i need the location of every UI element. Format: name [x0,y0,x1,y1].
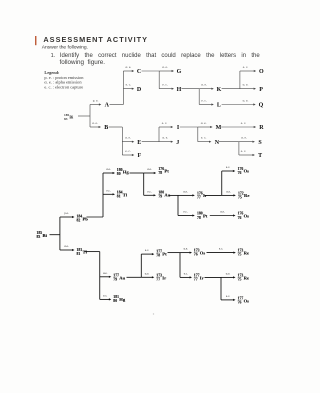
arrow to Au-177 (alpha emission) [100,276,110,278]
svg-text:e. c.: e. c. [162,83,168,87]
svg-text:e. c.: e. c. [125,149,131,153]
svg-text:75: 75 [238,253,242,257]
arrow from Pt-180 to Os-176 (alpha emission) [210,215,234,217]
arrow to node E (alpha emission) [122,141,132,143]
svg-text:T: T [258,153,262,159]
wire branch vertical B to E/F [121,127,123,155]
svg-text:N: N [215,140,220,146]
svg-text:M: M [216,125,222,131]
svg-text:e.c.: e.c. [103,294,107,298]
svg-text:e.c.: e.c. [147,189,151,193]
svg-text:Re: Re [244,275,249,280]
wire from Au-177 to branch [127,276,142,278]
svg-text:75: 75 [238,195,242,199]
svg-text:Os: Os [244,214,250,219]
svg-text:173: 173 [156,274,162,278]
arrow to Os-173 (alpha emission) [180,252,190,254]
svg-text:172: 172 [238,191,244,195]
svg-text:Au: Au [119,275,125,280]
wire from E to branch [142,141,159,143]
wire branch vertical I to M/N [197,127,199,142]
svg-text:Hg: Hg [119,297,126,302]
wire branch vertical Pb-184 [102,173,104,217]
arrow to node L (electron capture) [199,104,212,106]
wire branch vertical Pt-177 [179,253,181,278]
arrow to Ir-173 (alpha emission) [141,276,152,278]
svg-text:181: 181 [77,248,83,252]
svg-text:Q: Q [259,103,264,109]
wire branch vertical Bi to Pb-184/Tl-181 [59,217,61,250]
svg-text:α. e.: α. e. [92,121,98,125]
wire branch vertical Au-180 [177,195,179,215]
svg-text:76: 76 [238,171,242,175]
svg-text:e.c.: e.c. [184,272,188,276]
svg-text:α.e.: α.e. [64,244,69,248]
svg-text:77: 77 [197,195,201,199]
wire branch vertical Ir-177 [220,277,222,300]
svg-text:e.c.: e.c. [183,210,187,214]
arrow to Re-173 (alpha emission) [221,276,234,278]
arrow to Os-176 (electron capture) [222,170,234,172]
svg-text:α.e.: α.e. [183,189,188,193]
wire branch vertical C to G/H [158,71,160,89]
wire from N to branch [219,141,239,143]
stray scan speck [153,313,154,314]
svg-text:83: 83 [37,235,41,239]
svg-text:184: 184 [77,215,83,219]
svg-text:e.c.: e.c. [226,165,230,169]
arrow to node K (alpha emission) [199,88,212,90]
wire branch vertical A to C/D [122,71,124,105]
svg-text:α.e.: α.e. [147,167,152,171]
svg-text:α. e.: α. e. [162,65,168,69]
svg-text:1.: 1. [51,53,56,59]
svg-text:O: O [259,69,264,75]
svg-text:76: 76 [238,301,242,305]
svg-text:Os: Os [244,169,250,174]
arrow to node G (alpha emission) [159,70,172,72]
svg-text:173: 173 [194,249,200,253]
arrow to node J (alpha emission) [159,141,171,143]
arrow to node A (proton emission) [90,104,99,106]
svg-text:81: 81 [77,252,81,256]
svg-text:177: 177 [156,250,162,254]
svg-text:78: 78 [197,216,201,220]
arrow to node N (electron capture) [198,141,210,143]
svg-text:E: E [137,140,141,146]
wire from Bi-185 answer tree [50,234,60,236]
svg-text:181: 181 [113,295,119,299]
wire from H to branch [182,88,200,90]
arrow to Tl-181 (alpha emission) [60,249,73,251]
svg-text:e.c.: e.c. [219,247,223,251]
svg-text:α. e.: α. e. [162,136,168,140]
svg-text:177: 177 [194,274,200,278]
svg-text:C: C [137,69,141,75]
svg-text:D: D [137,87,142,93]
svg-text:77: 77 [156,278,160,282]
wire branch vertical E to I/J [158,127,160,142]
svg-text:α.e.: α.e. [145,271,150,275]
svg-text:p. e.: p. e. [93,99,99,103]
header accent bar [35,36,36,45]
svg-text:Pt: Pt [203,214,208,219]
svg-text:80: 80 [117,172,121,176]
wire from C to branch [142,70,160,72]
svg-text:following figure.: following figure. [60,59,106,66]
wire from Hg-180 to branch [130,172,144,174]
svg-text:177: 177 [113,274,119,278]
svg-text:82: 82 [77,219,81,223]
svg-text:α.e.: α.e. [106,167,111,171]
wire from Au-180 to branch [169,194,178,196]
wire from Tl-181 to branch [85,251,100,253]
svg-text:Hg: Hg [123,170,130,175]
arrow to Os-177 (electron capture) [221,299,234,301]
svg-text:77: 77 [194,278,198,282]
svg-text:α.e.: α.e. [184,247,189,251]
arrow to Au-180 (electron capture) [144,194,154,196]
svg-text:76: 76 [238,216,242,220]
svg-text:185: 185 [37,231,43,235]
svg-text:Identify the correct nuclide t: Identify the correct nuclide that could … [60,53,261,59]
svg-text:80: 80 [113,299,117,303]
arrow to Ir-176 (alpha emission) [178,194,193,196]
svg-text:α.e.: α.e. [226,189,231,193]
svg-text:G: G [177,69,182,75]
svg-text:e. c.: e. c. [126,83,132,87]
svg-text:e. c.: e. c. [201,99,207,103]
svg-text:Bi: Bi [43,233,48,238]
arrow from Os-173 to Re-173 (electron capture) [207,252,234,254]
wire from A to branch [110,104,124,106]
svg-text:79: 79 [113,278,117,282]
svg-text:180: 180 [117,168,123,172]
wire branch vertical Ir-176 [221,171,223,195]
svg-text:Legend:: Legend: [44,70,60,75]
arrow to node D (electron capture) [123,88,132,90]
svg-text:e.c.: e.c. [226,294,230,298]
wire from Ir-176 to branch [205,194,222,196]
svg-text:185: 185 [64,113,69,117]
svg-text:α. e.: α. e. [243,99,249,103]
wire branch vertical Tl-181 [99,252,101,300]
svg-text:α. e.: α. e. [243,83,249,87]
svg-text:e. c.: e. c. [243,65,249,69]
arrow to node F (electron capture) [122,154,132,156]
wire from Ir-177 to branch [205,276,222,278]
wire from I to branch [180,126,198,128]
wire branch vertical Bi to A/B [89,105,91,128]
wire from Bi-185 to first branch [78,115,90,117]
svg-text:ASSESSMENT ACTIVITY: ASSESSMENT ACTIVITY [43,35,148,44]
svg-text:α. e.: α. e. [201,83,207,87]
svg-text:P: P [259,87,263,93]
svg-text:75: 75 [238,278,242,282]
svg-text:180: 180 [158,191,164,195]
wire from B to branch [109,126,123,128]
svg-text:78: 78 [156,254,160,258]
arrow to node I (electron capture) [159,126,171,128]
svg-text:176: 176 [238,212,244,216]
svg-text:α.e.: α.e. [226,272,231,276]
svg-text:e.c.: e.c. [106,188,110,192]
svg-text:79: 79 [158,195,162,199]
svg-text:B: B [104,125,108,131]
svg-text:α.e.: α.e. [220,210,225,214]
wire from Pt-177 to branch [168,252,181,254]
svg-text:F: F [137,153,141,159]
svg-text:α.e.: α.e. [103,271,108,275]
arrow to Pt-176 (alpha emission) [144,172,155,174]
svg-text:α. e.: α. e. [241,136,247,140]
svg-text:Os: Os [200,250,206,255]
svg-text:176: 176 [197,191,203,195]
svg-text:177: 177 [238,297,244,301]
arrow to Ir-177 (electron capture) [180,276,190,278]
arrow from M to node R (electron capture) [221,126,254,128]
wire from Pb-184 to branch [87,216,104,218]
arrow to node C (alpha emission) [123,70,132,72]
svg-text:A: A [105,103,110,109]
svg-text:Tl: Tl [83,250,88,255]
svg-text:Tl: Tl [123,192,128,197]
arrow to node S (alpha emission) [239,141,253,143]
svg-text:Ir: Ir [162,275,166,280]
arrow to node O (electron capture) [240,70,254,72]
svg-text:78: 78 [158,171,162,175]
svg-text:180: 180 [197,212,203,216]
svg-text:Pt: Pt [164,169,169,174]
wire branch vertical Au-177 [140,254,142,277]
arrow to Pt-177 (electron capture) [141,253,152,255]
arrow to node H (electron capture) [159,88,172,90]
arrow to Re-172 (alpha emission) [222,194,234,196]
svg-text:Pt: Pt [162,251,167,256]
svg-text:Re: Re [244,250,249,255]
svg-text:176: 176 [158,167,164,171]
svg-text:R: R [259,125,264,131]
svg-text:p.e.: p.e. [64,211,69,215]
svg-text:e. c.: e. c. [201,136,207,140]
wire branch vertical K to O/P [239,71,241,89]
svg-text:Ir: Ir [200,275,204,280]
svg-text:81: 81 [117,195,121,199]
arrow from L to node Q (alpha emission) [222,104,254,106]
arrow to Pb-184 (proton emission) [60,216,73,218]
wire branch vertical H to K/L [198,89,200,105]
svg-text:76: 76 [194,253,198,257]
svg-text:Answer the following.: Answer the following. [42,44,88,50]
svg-text:e. c.: e. c. [241,149,247,153]
svg-text:Os: Os [244,298,250,303]
svg-text:e. c. : electron capture: e. c. : electron capture [44,84,83,89]
wire branch vertical Hg-180 [143,173,145,195]
svg-text:α. e.: α. e. [125,136,131,140]
svg-text:K: K [217,87,222,93]
svg-text:L: L [217,103,221,109]
svg-text:e. c.: e. c. [162,121,168,125]
arrow to node P (alpha emission) [240,88,254,90]
wire from K to branch [222,88,240,90]
arrow to Hg-180 (alpha emission) [103,172,113,174]
arrow to Tl-184 (electron capture) [103,193,113,195]
svg-text:176: 176 [238,167,244,171]
arrow to node B (alpha emission) [90,126,99,128]
svg-text:Re: Re [244,193,249,198]
svg-text:173: 173 [238,249,244,253]
svg-text:J: J [176,140,179,146]
arrow to Hg-181 (electron capture) [100,298,110,300]
arrow to node M (alpha emission) [198,126,211,128]
arrow to node T (electron capture) [239,154,253,156]
svg-text:83: 83 [64,117,68,121]
svg-text:Au: Au [164,192,170,197]
svg-text:e. c.: e. c. [241,121,247,125]
svg-text:184: 184 [117,191,123,195]
arrow to Pt-180 (electron capture) [178,215,193,217]
svg-text:H: H [177,87,182,93]
svg-text:α. e.: α. e. [125,65,131,69]
svg-text:α. e.: α. e. [201,121,207,125]
svg-text:e.c.: e.c. [145,248,149,252]
svg-text:173: 173 [238,274,244,278]
wire branch vertical N to S/T [238,142,240,155]
